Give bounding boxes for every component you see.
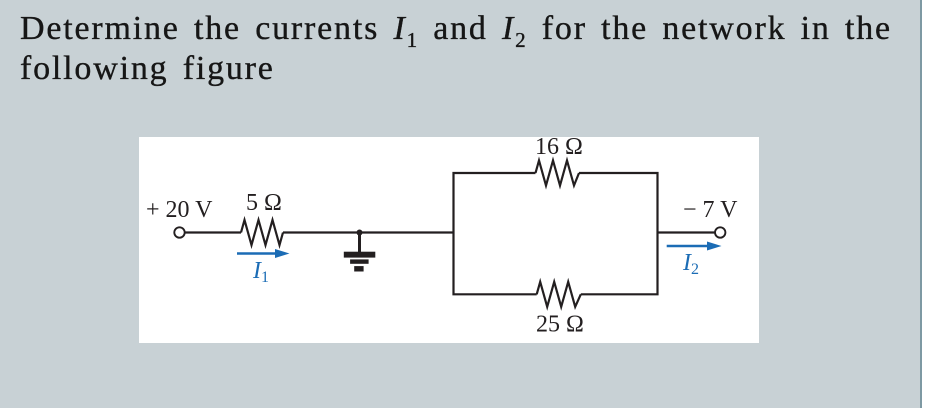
svg-text:25 Ω: 25 Ω <box>536 312 584 338</box>
wire from R1 to node A and on to parallel network <box>283 231 454 233</box>
svg-text:− 7 V: − 7 V <box>683 197 738 223</box>
wire from +20V terminal to R1 <box>185 231 241 233</box>
svg-text:16 Ω: 16 Ω <box>535 137 583 160</box>
wire left branch top (box left side up and top-left segment) <box>454 173 536 233</box>
wire from parallel network to -7V terminal <box>658 231 715 233</box>
svg-text:I1: I1 <box>252 258 269 286</box>
current arrow I2 <box>667 242 722 251</box>
terminal -7V (open circle) <box>715 227 725 237</box>
terminal +20V (open circle) <box>174 227 184 237</box>
current arrow I1 <box>237 249 290 258</box>
wire top-right segment (from R2 to box right side down) <box>579 173 658 233</box>
svg-text:+ 20 V: + 20 V <box>146 197 213 223</box>
wire left branch bottom (box left side down and bottom-left segment) <box>454 233 537 295</box>
wire bottom-right segment (from R3 to box right side up) <box>581 233 658 295</box>
resistor R1 5 ohm <box>241 220 283 245</box>
node A (junction dot) <box>357 230 363 236</box>
svg-text:I2: I2 <box>682 250 699 278</box>
resistor R3 25 ohm <box>537 282 581 307</box>
resistor R2 16 ohm <box>536 161 580 186</box>
ground stem <box>358 233 361 253</box>
svg-text:5 Ω: 5 Ω <box>246 190 282 216</box>
ground <box>344 252 376 272</box>
